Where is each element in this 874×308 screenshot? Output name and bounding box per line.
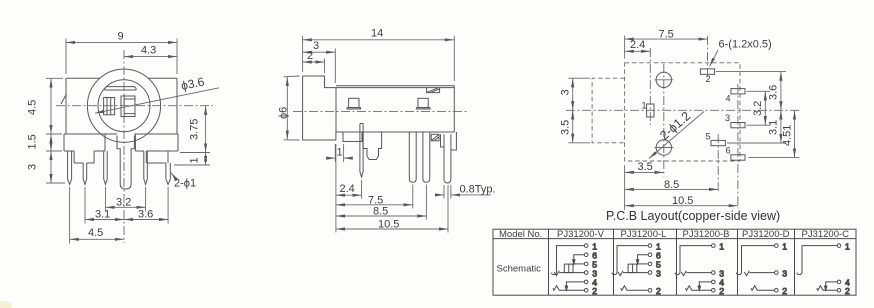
horizontal centerline	[293, 111, 467, 113]
svg-text:3: 3	[313, 40, 319, 52]
pad 1	[647, 104, 654, 117]
isolator box between 5 and 3	[564, 264, 573, 273]
svg-text:6-(1.2x0.5): 6-(1.2x0.5)	[719, 39, 772, 51]
dimension 3 left	[572, 78, 574, 110]
svg-text:3.1: 3.1	[768, 120, 780, 135]
svg-text:2-ϕ1: 2-ϕ1	[174, 178, 196, 190]
svg-text:2: 2	[782, 286, 787, 296]
terminal 2 wire with ring-spring contact	[621, 286, 649, 291]
dimension 3.1 right	[780, 110, 782, 143]
dimension 3.2 right	[764, 91, 766, 125]
dimension 4.51 right	[794, 110, 796, 157]
shield tab dark rect	[431, 134, 439, 141]
right chain extension lines	[174, 153, 210, 166]
svg-text:3: 3	[656, 268, 661, 278]
common sleeve lead and terminal 1	[675, 246, 712, 275]
svg-text:4: 4	[726, 94, 731, 104]
terminal 3 wire with tip-spring contact	[749, 272, 774, 274]
svg-text:3: 3	[725, 113, 730, 123]
dimension 1 small	[335, 144, 343, 162]
column lines	[549, 229, 795, 295]
svg-text:7.5: 7.5	[659, 29, 674, 41]
bottom extension lines	[70, 187, 169, 244]
header divider	[493, 238, 856, 240]
body dashed outline	[625, 63, 740, 161]
leader 2-phi1.2	[649, 112, 704, 159]
dimension 3 left	[50, 151, 52, 183]
pin 2	[83, 163, 87, 185]
svg-text:4.3: 4.3	[141, 45, 156, 57]
svg-text:3.5: 3.5	[560, 120, 572, 135]
svg-text:4.5: 4.5	[27, 100, 39, 115]
dimension 4.3	[124, 56, 177, 58]
pad 5	[711, 140, 725, 145]
sleeve outline	[303, 76, 336, 140]
dimension 3.5 bottom	[625, 171, 664, 173]
terminal 3 wire with tip-spring contact	[686, 272, 711, 274]
svg-text:1: 1	[337, 147, 343, 159]
leg 3	[444, 134, 451, 183]
svg-text:3.2: 3.2	[752, 101, 764, 116]
dimension 3.75 right	[205, 106, 207, 153]
svg-text:3.1: 3.1	[95, 209, 110, 221]
inner barrel circle	[98, 80, 150, 132]
left contact block	[104, 98, 115, 115]
svg-text:2: 2	[307, 50, 313, 62]
top contact bar inside barrel	[105, 87, 136, 90]
svg-text:3: 3	[782, 268, 787, 278]
flange left tongue	[74, 151, 94, 163]
terminal 4 wire with switch arrow	[699, 282, 711, 287]
front body outline	[66, 78, 177, 134]
terminal 5 wire	[573, 263, 584, 265]
svg-text:3: 3	[560, 89, 572, 95]
label 6-(1.2x0.5) with leader	[710, 50, 719, 67]
terminal 4 wire with switch arrow	[826, 282, 838, 287]
schematic PJ31200-B	[675, 241, 724, 296]
pad 2	[700, 69, 714, 74]
pad 3	[731, 123, 745, 128]
pads 4-3-6 column centerline	[737, 84, 739, 209]
vertical centerline	[123, 50, 125, 243]
bottom boss	[343, 132, 362, 142]
dimension 2 top	[324, 59, 326, 74]
dimension 7.5	[412, 185, 414, 209]
dimension 8.5	[425, 185, 427, 220]
right shield fold	[451, 132, 457, 150]
left side extension ticks	[569, 78, 591, 143]
svg-text:2: 2	[719, 286, 724, 296]
svg-text:1: 1	[189, 157, 201, 163]
label 2-phi1 with leader	[171, 173, 177, 181]
dimension 8.5 bottom	[625, 188, 719, 190]
svg-text:1: 1	[845, 241, 850, 251]
svg-text:0.8Typ.: 0.8Typ.	[460, 184, 496, 196]
svg-text:3.2: 3.2	[116, 197, 131, 209]
dimension 1 right	[205, 153, 207, 166]
dimension 4.5 left	[50, 78, 52, 134]
svg-text:4.51: 4.51	[782, 125, 794, 146]
flange right tongue	[146, 151, 168, 163]
svg-text:Schematic: Schematic	[497, 264, 542, 275]
dimension 1.5 left	[50, 134, 52, 151]
left extension for top dims	[624, 36, 626, 59]
terminal 2 wire with ring-spring contact	[553, 286, 585, 291]
table frame	[493, 229, 856, 295]
schematic PJ31200-L	[612, 241, 661, 296]
flange right ear	[135, 134, 178, 151]
hole 1	[656, 72, 671, 87]
top contact window 2	[418, 98, 428, 107]
svg-text:2.4: 2.4	[340, 183, 355, 195]
dimension phi6	[284, 76, 300, 140]
dc contact pin	[360, 124, 363, 178]
svg-text:10.5: 10.5	[378, 218, 399, 230]
svg-text:2: 2	[845, 286, 850, 296]
schematic PJ31200-V	[551, 241, 597, 296]
svg-text:2: 2	[706, 74, 711, 84]
terminal 4 wire with switch arrow	[566, 282, 584, 287]
pin 1 leftmost	[68, 151, 72, 185]
dimension 2.4 top	[625, 50, 651, 52]
scan smudge bottom-left	[0, 301, 12, 308]
top contact window 1	[349, 98, 359, 107]
dimension 10.5	[447, 185, 449, 233]
dimension 3.5 left	[572, 110, 574, 143]
horizontal centerline	[56, 105, 213, 107]
svg-text:2: 2	[656, 286, 661, 296]
right contact block	[121, 96, 135, 117]
svg-text:7.5: 7.5	[368, 194, 383, 206]
svg-text:ϕ6: ϕ6	[278, 107, 290, 119]
dimension 0.8 typ	[444, 185, 451, 199]
body bottom / flange top edge	[64, 133, 178, 135]
pin 3	[104, 151, 108, 185]
svg-text:3.6: 3.6	[138, 209, 153, 221]
svg-text:9: 9	[118, 31, 124, 43]
dimension 3 top	[334, 49, 336, 84]
svg-text:5: 5	[706, 132, 711, 142]
svg-text:P.C.B Layout(copper-side view): P.C.B Layout(copper-side view)	[606, 209, 780, 223]
svg-text:2.4: 2.4	[630, 39, 645, 51]
reference extension line	[335, 144, 337, 233]
dimension 3.2	[106, 206, 146, 208]
svg-text:PJ31200-B: PJ31200-B	[683, 229, 730, 240]
svg-text:1: 1	[642, 101, 647, 111]
svg-text:PJ31200-C: PJ31200-C	[802, 229, 850, 240]
common sleeve lead and terminal 1	[612, 246, 648, 275]
schematic PJ31200-D	[736, 241, 787, 296]
dimension 14	[303, 36, 455, 81]
svg-text:PJ31200-L: PJ31200-L	[621, 229, 667, 240]
terminal 2 wire with ring-spring contact	[686, 286, 712, 291]
svg-text:1: 1	[782, 241, 787, 251]
terminal 6 wire with actuator arrow	[574, 255, 585, 261]
dimension 2.4	[361, 180, 363, 199]
svg-text:2: 2	[592, 286, 597, 296]
horizontal centerline	[566, 109, 800, 111]
terminal 3 wire with tip-spring contact	[623, 272, 648, 274]
leader phi3.6	[95, 88, 219, 113]
chamfer tick on left edge	[61, 94, 67, 104]
flange left ear	[64, 134, 105, 151]
leg 2	[423, 132, 430, 182]
leg 1	[409, 132, 416, 182]
svg-text:3: 3	[27, 164, 39, 170]
center plastic post	[117, 136, 134, 190]
svg-text:3.6: 3.6	[768, 85, 780, 100]
pin 4	[144, 151, 148, 185]
terminal 6 wire with actuator arrow	[638, 255, 649, 261]
right extension lines	[716, 72, 800, 158]
common sleeve lead and terminal 1	[797, 246, 837, 275]
terminal 2 wire with ring-spring contact	[817, 286, 838, 291]
schematic PJ31200-C	[797, 241, 850, 296]
dimension 10.5 bottom	[625, 205, 738, 207]
svg-text:1.5: 1.5	[27, 134, 39, 149]
common sleeve lead and terminal 1	[736, 246, 774, 275]
pin 5	[166, 163, 170, 185]
outer barrel circle	[87, 69, 160, 142]
pad 6	[731, 155, 745, 160]
dimension 3.6 right	[780, 72, 782, 111]
left chain extension lines	[46, 78, 65, 183]
leg3 bracket step	[441, 134, 445, 147]
svg-text:6: 6	[726, 146, 731, 156]
terminal 5 wire	[637, 263, 648, 265]
bottom extension for dims	[624, 165, 626, 210]
svg-text:4.5: 4.5	[88, 227, 103, 239]
svg-text:3.75: 3.75	[189, 119, 201, 140]
svg-text:1: 1	[719, 241, 724, 251]
svg-text:3.5: 3.5	[638, 161, 653, 173]
pad 4	[731, 89, 745, 94]
body bottom edge	[336, 131, 454, 133]
hole column centerline	[663, 64, 665, 177]
dimension 3.6	[124, 219, 168, 221]
isolator box between 5 and 3	[628, 264, 637, 273]
sleeve dashed outline	[592, 78, 625, 143]
terminal 3 wire with tip-spring contact	[559, 272, 584, 274]
center post block	[363, 132, 382, 160]
hatched gate mark	[427, 88, 440, 93]
dimension 3.1	[85, 219, 124, 221]
dimension 9	[66, 39, 177, 75]
svg-text:8.5: 8.5	[373, 206, 388, 218]
dimension 7.5 top	[625, 38, 708, 40]
svg-text:8.5: 8.5	[664, 179, 679, 191]
svg-text:PJ31200-D: PJ31200-D	[742, 229, 790, 240]
body left face line	[335, 88, 337, 132]
svg-text:10.5: 10.5	[672, 195, 693, 207]
svg-text:PJ31200-V: PJ31200-V	[557, 229, 605, 240]
terminal 2 wire with ring-spring contact	[751, 286, 775, 291]
hole 2	[656, 140, 671, 155]
dimension 4.5 bottom	[70, 238, 124, 240]
svg-text:14: 14	[371, 28, 383, 40]
svg-text:Model No.: Model No.	[499, 229, 542, 240]
common sleeve lead and terminal 1	[551, 246, 584, 275]
body right edge	[453, 86, 455, 132]
body top edge double line	[336, 86, 454, 88]
